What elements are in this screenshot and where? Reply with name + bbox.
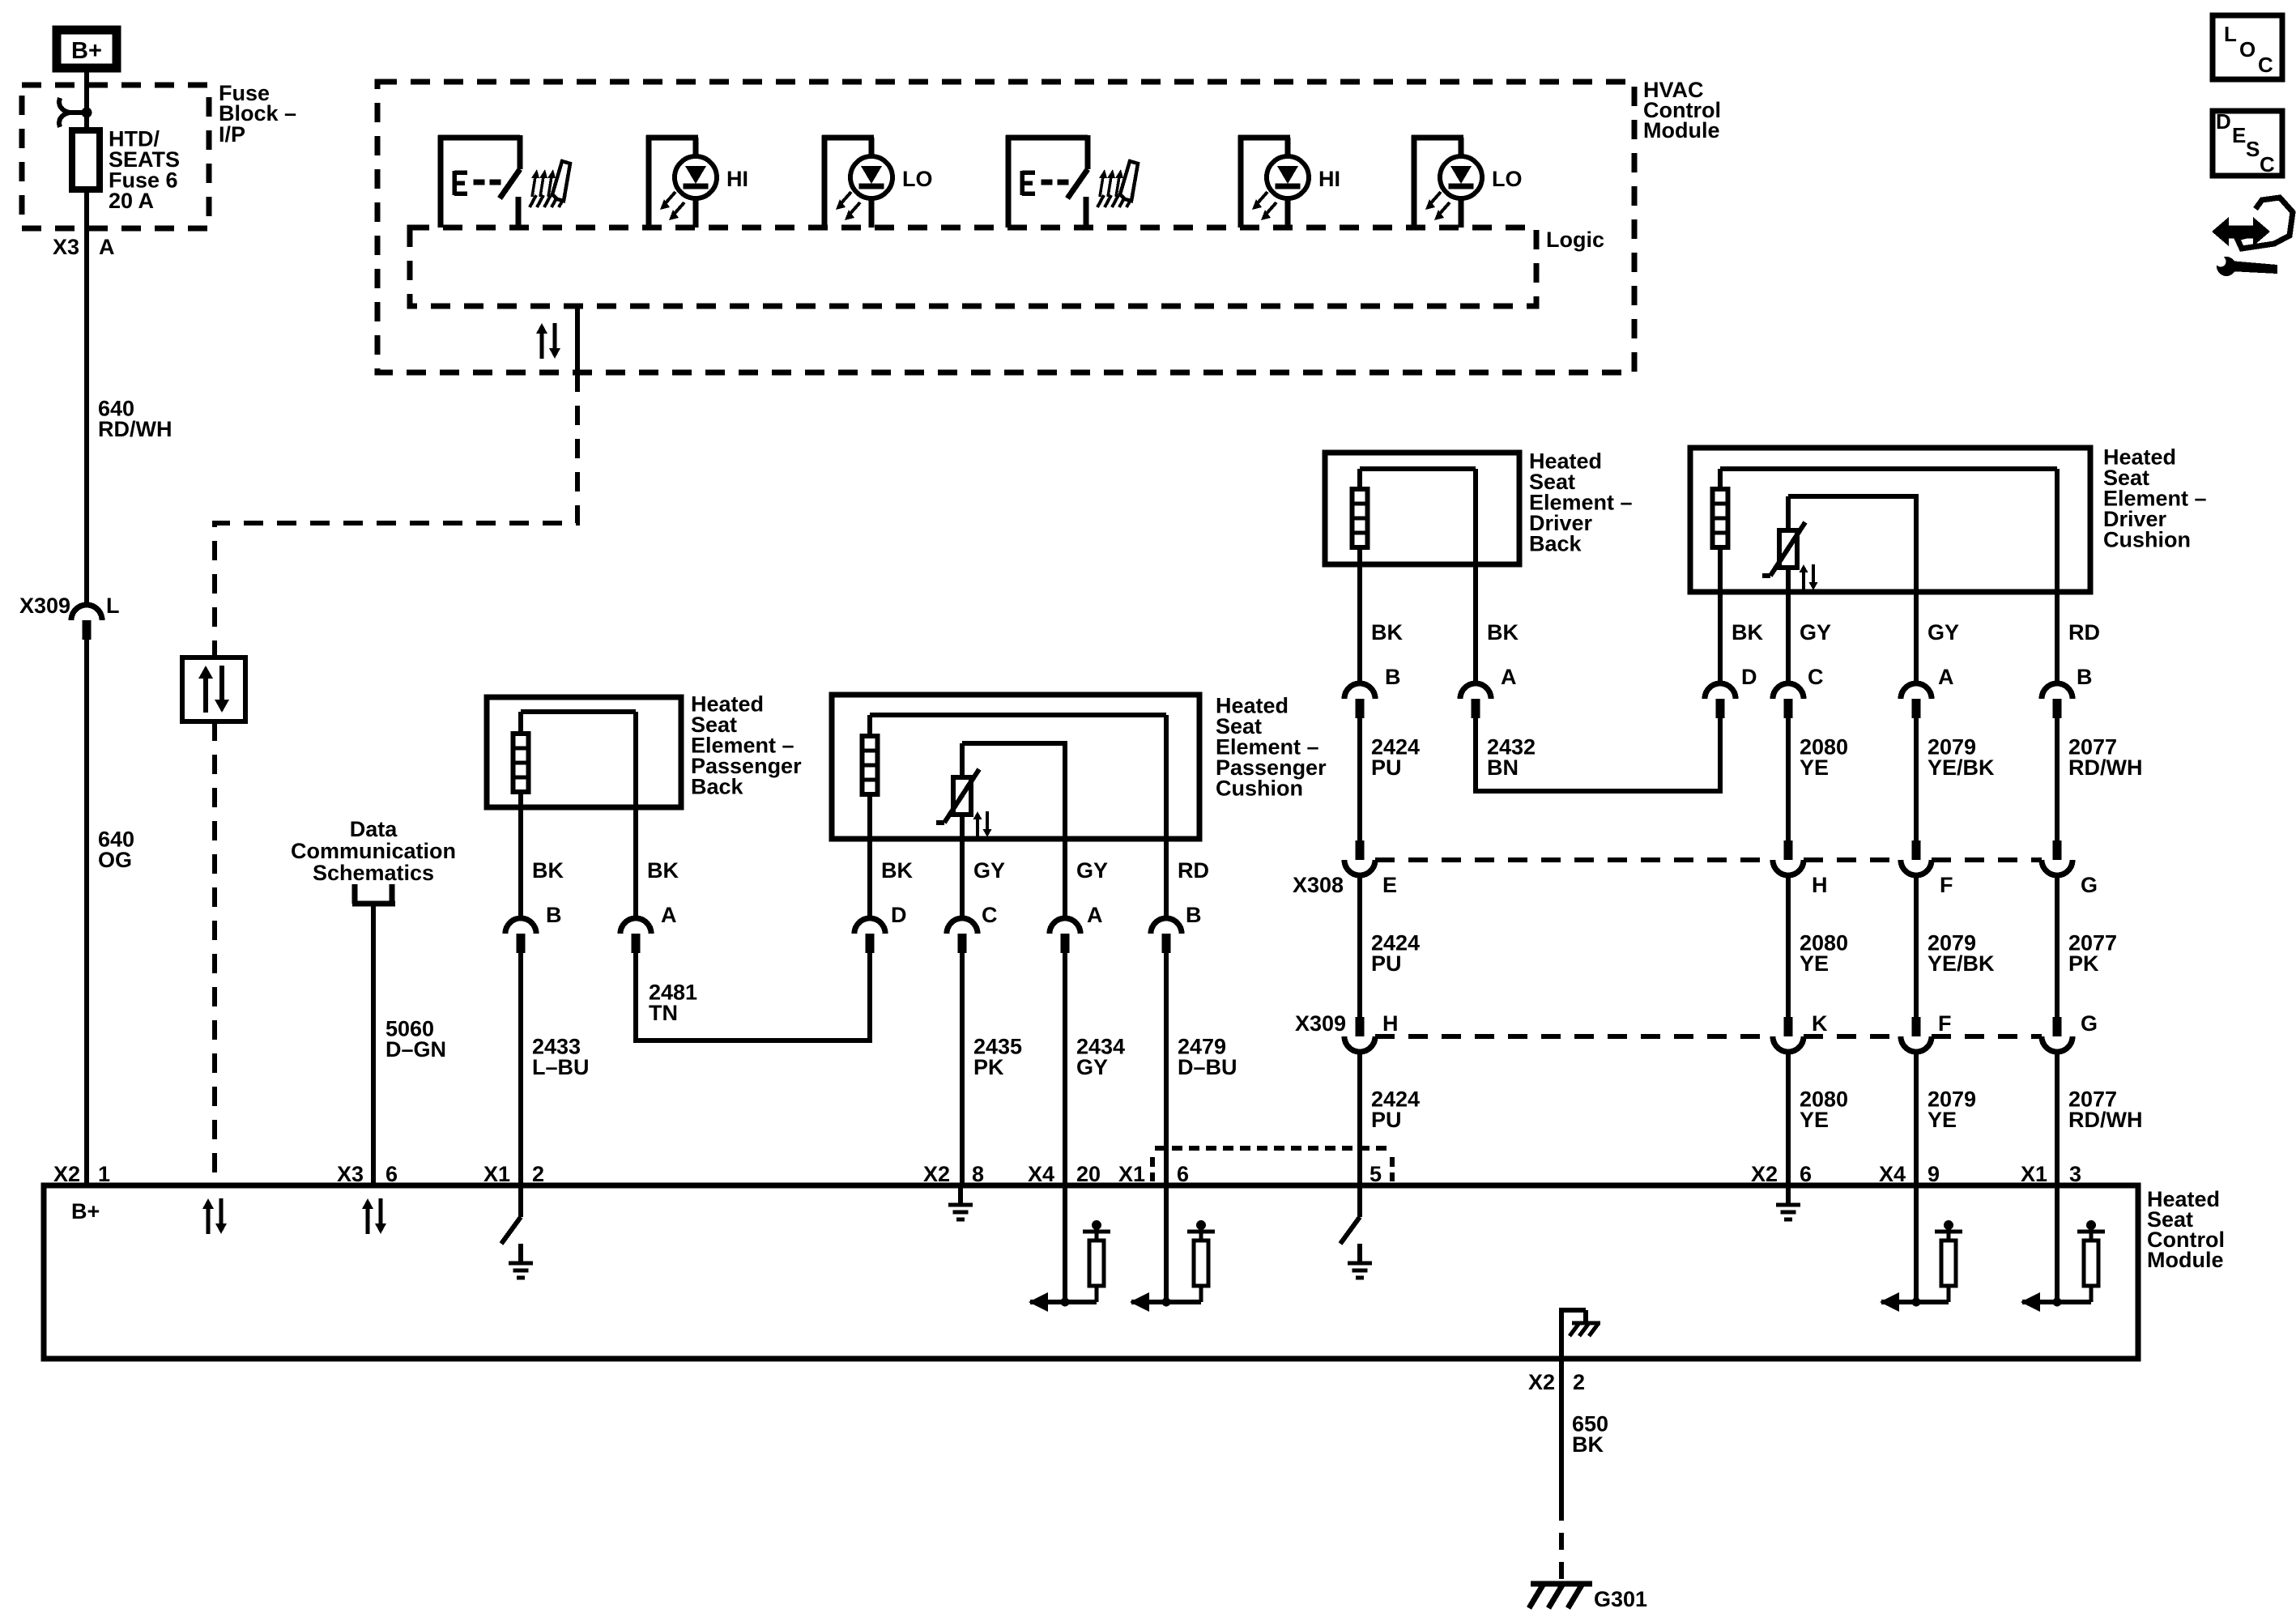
- thermistor driver cushion: [1786, 496, 1791, 530]
- svg-text:5: 5: [1370, 1162, 1382, 1186]
- thermistor passenger cushion: [960, 743, 965, 777]
- bidirectional signal arrows in HVAC module: [540, 334, 544, 359]
- svg-text:Module: Module: [1643, 118, 1720, 143]
- svg-text:A: A: [99, 235, 115, 259]
- svg-text:Cushion: Cushion: [1216, 777, 1303, 801]
- ground G301: [1531, 1581, 1592, 1587]
- svg-text:B: B: [546, 903, 562, 927]
- svg-text:L: L: [106, 594, 120, 618]
- wire 2080 YE mid: [1786, 875, 1791, 1017]
- svg-text:YE: YE: [1800, 1108, 1829, 1132]
- X309 pin H: [1356, 1017, 1365, 1036]
- svg-text:GY: GY: [1800, 620, 1831, 645]
- inline connector X308 dashed line: [1375, 857, 1773, 862]
- X308 pin F: [1912, 840, 1921, 860]
- module internal low driver switch 1: [518, 1185, 523, 1217]
- svg-text:A: A: [1501, 665, 1517, 689]
- svg-text:S: S: [2246, 137, 2260, 161]
- svg-text:C: C: [2260, 152, 2275, 177]
- heater element driver cushion: [1713, 489, 1728, 547]
- connector pin B: [1151, 918, 1182, 934]
- indicator LED LO (driver): [1412, 135, 1417, 228]
- wire sensor return to pin A: [1063, 839, 1067, 918]
- wire 2079 YE lower: [1914, 1052, 1919, 1185]
- svg-text:X1: X1: [483, 1162, 510, 1186]
- svg-text:BK: BK: [1371, 620, 1403, 645]
- wire to pin D: [1718, 592, 1723, 683]
- svg-text:A: A: [661, 903, 677, 927]
- svg-text:I/P: I/P: [219, 122, 245, 147]
- wire element feed to pin B: [2055, 469, 2060, 592]
- svg-text:1: 1: [98, 1162, 110, 1186]
- svg-text:BK: BK: [881, 858, 913, 883]
- logic block dashed box: [410, 228, 1536, 306]
- connector pin B: [2042, 683, 2072, 699]
- wire 2434 GY: [1063, 953, 1067, 1185]
- connector pin A: [620, 918, 651, 934]
- svg-text:BK: BK: [1732, 620, 1763, 645]
- wire 2432 BN: [1476, 718, 1720, 791]
- svg-text:20 A: 20 A: [109, 189, 154, 213]
- svg-text:Data: Data: [350, 817, 398, 841]
- svg-text:PU: PU: [1371, 755, 1402, 780]
- svg-text:PK: PK: [973, 1055, 1004, 1079]
- wire 2481 TN: [636, 953, 870, 1040]
- fuse HTD/SEATS Fuse 6 20 A: [72, 130, 100, 189]
- svg-text:6: 6: [1800, 1162, 1812, 1186]
- X309 pin G: [2053, 1017, 2062, 1036]
- bus tap clip: [59, 98, 70, 113]
- wire 2077 RD/WH: [2055, 718, 2060, 840]
- svg-text:BK: BK: [1487, 620, 1519, 645]
- svg-text:RD: RD: [1178, 858, 1209, 883]
- wire element feed to pin B: [1164, 715, 1169, 918]
- svg-text:BK: BK: [532, 858, 564, 883]
- wire sensor return to pin A: [1914, 592, 1919, 683]
- internal wires: [1360, 466, 1476, 471]
- svg-text:BK: BK: [647, 858, 679, 883]
- internal wires: [1720, 466, 2057, 471]
- svg-text:D: D: [891, 903, 907, 927]
- module internal serial arrows 1: [207, 1209, 211, 1234]
- connector pin D: [1705, 683, 1736, 699]
- svg-text:GY: GY: [1928, 620, 1959, 645]
- svg-text:RD/WH: RD/WH: [2068, 755, 2142, 780]
- svg-text:Back: Back: [691, 775, 744, 799]
- svg-text:X3: X3: [53, 235, 79, 259]
- svg-text:YE: YE: [1800, 951, 1829, 976]
- wire 2080 YE lower: [1786, 1052, 1791, 1185]
- svg-text:20: 20: [1076, 1162, 1101, 1186]
- module internal low driver switch 2: [1357, 1185, 1362, 1217]
- wire 2079 YE/BK: [1914, 718, 1919, 840]
- dashed serial data wire: [215, 372, 577, 657]
- wire 2479 D-BU: [1164, 953, 1169, 1185]
- wire 2424 PU mid: [1357, 875, 1362, 1017]
- indicator LED LO (passenger): [822, 135, 828, 228]
- svg-text:L: L: [2224, 22, 2237, 46]
- svg-text:X2: X2: [1751, 1162, 1778, 1186]
- svg-text:8: 8: [972, 1162, 984, 1186]
- svg-text:Cushion: Cushion: [2103, 528, 2191, 552]
- svg-text:D: D: [1741, 665, 1757, 689]
- module internal serial arrows 2: [366, 1209, 370, 1234]
- heated seat switch S1 (passenger): [438, 135, 444, 228]
- X308 pin H: [1784, 840, 1793, 860]
- wire driver back element to pin A: [1473, 469, 1478, 683]
- svg-text:HI: HI: [1318, 167, 1340, 191]
- svg-text:H: H: [1382, 1011, 1399, 1036]
- svg-text:RD: RD: [2068, 620, 2100, 645]
- svg-text:X2: X2: [1528, 1370, 1555, 1394]
- svg-text:2: 2: [1573, 1370, 1585, 1394]
- wire 2435 PK: [960, 953, 965, 1185]
- svg-text:RD/WH: RD/WH: [2068, 1108, 2142, 1132]
- svg-text:YE: YE: [1800, 755, 1829, 780]
- svg-text:Back: Back: [1529, 532, 1582, 556]
- svg-text:LO: LO: [1492, 167, 1523, 191]
- heater element passenger back: [513, 734, 529, 792]
- wire 2077 RD/WH lower: [2055, 1052, 2060, 1185]
- module internal sensor pullup 1: [1063, 1185, 1067, 1302]
- svg-text:PU: PU: [1371, 951, 1402, 976]
- wire 2433 L-BU: [518, 953, 523, 1185]
- svg-text:B: B: [1385, 665, 1401, 689]
- svg-text:YE/BK: YE/BK: [1928, 755, 1995, 780]
- wire 650 BK: [1559, 1359, 1564, 1504]
- svg-text:GY: GY: [1076, 858, 1108, 883]
- svg-text:X2: X2: [53, 1162, 80, 1186]
- connector pin D: [854, 918, 885, 934]
- junction dot: [82, 108, 92, 118]
- wire 5060 D-GN: [371, 904, 376, 1185]
- svg-text:C: C: [1808, 665, 1824, 689]
- connector pin A: [1901, 683, 1932, 699]
- X309 pin F: [1912, 1017, 1921, 1036]
- wire logic to serial data out: [575, 306, 580, 372]
- wire element to pin A: [633, 712, 638, 918]
- svg-text:C: C: [2258, 53, 2273, 77]
- wire B+ feed: [84, 68, 89, 605]
- svg-text:H: H: [1812, 873, 1828, 897]
- svg-text:C: C: [982, 903, 998, 927]
- serial data bidirectional box: [182, 657, 245, 721]
- svg-text:A: A: [1938, 665, 1954, 689]
- svg-text:PK: PK: [2068, 951, 2099, 976]
- internal wires: [870, 713, 1166, 717]
- svg-text:BN: BN: [1487, 755, 1519, 780]
- svg-text:F: F: [1940, 873, 1953, 897]
- svg-text:2: 2: [532, 1162, 544, 1186]
- svg-text:Schematics: Schematics: [313, 861, 434, 885]
- svg-text:Module: Module: [2147, 1248, 2224, 1272]
- connector pin A: [1460, 683, 1491, 699]
- svg-text:B+: B+: [71, 1199, 100, 1223]
- indicator LED HI (passenger): [646, 135, 652, 228]
- svg-text:BK: BK: [1572, 1432, 1604, 1457]
- svg-text:B+: B+: [71, 38, 102, 64]
- svg-text:X309: X309: [1295, 1011, 1346, 1036]
- svg-text:D–BU: D–BU: [1178, 1055, 1237, 1079]
- svg-text:B: B: [2077, 665, 2093, 689]
- svg-text:B: B: [1186, 903, 1202, 927]
- connector pin B: [1344, 683, 1375, 699]
- svg-text:Logic: Logic: [1546, 228, 1604, 252]
- power symbol B+: [57, 30, 117, 68]
- svg-text:LO: LO: [902, 167, 933, 191]
- heated seat element driver cushion box: [1690, 448, 2090, 592]
- X308 pin G: [2053, 840, 2062, 860]
- module internal chassis ground at X2-2: [1559, 1308, 1564, 1359]
- svg-text:6: 6: [1177, 1162, 1189, 1186]
- dashed serial data wire to module: [212, 721, 217, 1185]
- svg-text:O: O: [2239, 37, 2256, 62]
- module internal sensor pullup 2: [1164, 1185, 1169, 1302]
- svg-text:TN: TN: [649, 1001, 678, 1025]
- svg-text:YE/BK: YE/BK: [1928, 951, 1995, 976]
- svg-text:6: 6: [386, 1162, 398, 1186]
- svg-text:YE: YE: [1928, 1108, 1957, 1132]
- svg-text:X1: X1: [2021, 1162, 2047, 1186]
- svg-text:Communication: Communication: [291, 839, 456, 863]
- svg-text:L–BU: L–BU: [532, 1055, 590, 1079]
- X309 pin K: [1784, 1017, 1793, 1036]
- svg-text:9: 9: [1928, 1162, 1940, 1186]
- svg-text:X3: X3: [337, 1162, 364, 1186]
- svg-text:E: E: [1382, 873, 1397, 897]
- wire element internal: [521, 709, 636, 714]
- heated seat element passenger back box: [487, 697, 681, 807]
- module internal sensor pullup 3: [1914, 1185, 1919, 1302]
- connector pin C: [1773, 683, 1804, 699]
- heater element driver back: [1352, 489, 1368, 547]
- connector pin C: [947, 918, 978, 934]
- fuse block I/P dashed box: [22, 85, 209, 228]
- svg-text:A: A: [1087, 903, 1103, 927]
- svg-text:X2: X2: [923, 1162, 950, 1186]
- inline connector X309 dashed line: [1375, 1034, 1773, 1039]
- icon LOC: [2213, 15, 2282, 79]
- svg-text:GY: GY: [1076, 1055, 1108, 1079]
- heated seat control module box: [44, 1185, 2138, 1359]
- module internal sensor pullup 4: [2055, 1185, 2060, 1302]
- svg-text:F: F: [1938, 1011, 1952, 1036]
- svg-text:X4: X4: [1028, 1162, 1054, 1186]
- svg-text:X308: X308: [1293, 873, 1344, 897]
- svg-text:RD/WH: RD/WH: [98, 417, 172, 441]
- svg-text:K: K: [1812, 1011, 1828, 1036]
- connector pin B: [505, 918, 536, 934]
- svg-text:X1: X1: [1118, 1162, 1145, 1186]
- svg-text:E: E: [2232, 123, 2246, 147]
- svg-text:G301: G301: [1594, 1587, 1647, 1611]
- module internal ground 1: [958, 1185, 963, 1205]
- svg-text:OG: OG: [98, 848, 132, 872]
- heated seat switch S2 (driver): [1006, 135, 1012, 228]
- heated seat element passenger cushion box: [832, 695, 1199, 839]
- svg-text:3: 3: [2069, 1162, 2081, 1186]
- connector pin A: [1050, 918, 1080, 934]
- HVAC control module dashed box: [377, 82, 1634, 372]
- svg-text:G: G: [2081, 1011, 2098, 1036]
- wire 2079 YE/BK mid: [1914, 875, 1919, 1017]
- module internal ground 2: [1786, 1185, 1791, 1205]
- svg-text:G: G: [2081, 873, 2098, 897]
- icon adjustable component (hand with arrows and wrench): [2226, 226, 2256, 238]
- indicator LED HI (driver): [1238, 135, 1244, 228]
- wire 2424 PU: [1357, 718, 1362, 840]
- svg-text:X309: X309: [19, 594, 70, 618]
- svg-text:GY: GY: [973, 858, 1005, 883]
- wire 640 OG: [84, 640, 89, 1185]
- inline connector X309 pin L: [71, 605, 102, 620]
- svg-text:D: D: [2216, 109, 2231, 134]
- X308 pin E: [1356, 840, 1365, 860]
- icon DESC: [2213, 111, 2282, 176]
- wire 2080 YE: [1786, 718, 1791, 840]
- svg-text:HI: HI: [726, 167, 748, 191]
- heated seat element driver back box: [1325, 453, 1519, 564]
- svg-text:X4: X4: [1879, 1162, 1906, 1186]
- wire 2424 PU lower: [1357, 1052, 1362, 1185]
- wire 2077 PK mid: [2055, 875, 2060, 1017]
- svg-text:D–GN: D–GN: [386, 1037, 446, 1062]
- svg-text:PU: PU: [1371, 1108, 1402, 1132]
- heater element passenger cushion: [863, 736, 878, 794]
